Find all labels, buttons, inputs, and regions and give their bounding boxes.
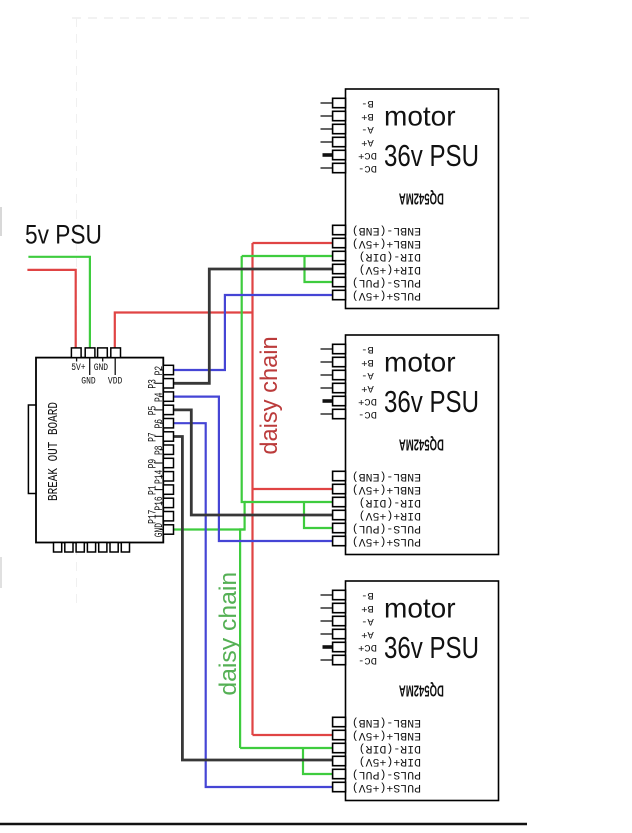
svg-text:ENBL+(+5V): ENBL+(+5V) [352, 483, 421, 495]
svg-text:A+: A+ [361, 136, 374, 148]
svg-text:DC-: DC- [358, 408, 377, 420]
svg-text:DC+: DC+ [358, 395, 377, 407]
svg-text:motor: motor [384, 346, 456, 377]
svg-text:5v PSU: 5v PSU [25, 220, 102, 250]
svg-text:PULS-(PUL): PULS-(PUL) [352, 276, 421, 288]
svg-text:DC+: DC+ [358, 641, 377, 653]
svg-text:DQ542MA: DQ542MA [399, 436, 444, 454]
svg-text:36v PSU: 36v PSU [384, 630, 479, 664]
svg-text:P2: P2 [153, 366, 166, 376]
svg-text:A-: A- [361, 615, 374, 627]
svg-text:GND: GND [81, 375, 95, 387]
svg-text:BREAK OUT BOARD: BREAK OUT BOARD [46, 402, 62, 501]
svg-text:PULS-(PUL): PULS-(PUL) [352, 522, 421, 534]
svg-text:motor: motor [384, 592, 456, 623]
svg-text:36v PSU: 36v PSU [384, 384, 479, 418]
svg-text:A+: A+ [361, 382, 374, 394]
svg-text:36v PSU: 36v PSU [384, 138, 479, 172]
svg-text:B+: B+ [361, 356, 374, 368]
svg-text:P7: P7 [146, 432, 159, 442]
svg-text:P16: P16 [153, 496, 166, 510]
svg-text:P14: P14 [153, 470, 166, 484]
svg-text:DIR-(DIR): DIR-(DIR) [359, 496, 421, 508]
svg-text:PULS+(+5V): PULS+(+5V) [352, 535, 421, 547]
svg-text:P17: P17 [146, 510, 159, 524]
svg-text:GND: GND [94, 361, 108, 373]
svg-text:DC+: DC+ [358, 149, 377, 161]
svg-text:P5: P5 [146, 406, 159, 416]
svg-text:DQ542MA: DQ542MA [399, 190, 444, 208]
svg-text:B-: B- [361, 589, 374, 601]
svg-text:P1: P1 [146, 485, 159, 495]
svg-text:B-: B- [361, 97, 374, 109]
svg-text:P3: P3 [146, 379, 159, 389]
svg-text:motor: motor [384, 100, 456, 131]
svg-text:ENBL-(ENB): ENBL-(ENB) [352, 716, 421, 728]
svg-text:DIR-(DIR): DIR-(DIR) [359, 742, 421, 754]
svg-text:5V+: 5V+ [71, 361, 85, 373]
svg-text:daisy chain: daisy chain [256, 336, 283, 454]
svg-text:DIR+(+5V): DIR+(+5V) [359, 755, 421, 767]
svg-text:P6: P6 [153, 419, 166, 429]
svg-text:ENBL-(ENB): ENBL-(ENB) [352, 470, 421, 482]
svg-text:DIR-(DIR): DIR-(DIR) [359, 250, 421, 262]
svg-text:ENBL+(+5V): ENBL+(+5V) [352, 729, 421, 741]
svg-text:B-: B- [361, 343, 374, 355]
svg-text:PULS+(+5V): PULS+(+5V) [352, 289, 421, 301]
svg-text:DIR+(+5V): DIR+(+5V) [359, 509, 421, 521]
svg-text:PULS-(PUL): PULS-(PUL) [352, 768, 421, 780]
svg-text:B+: B+ [361, 110, 374, 122]
svg-text:PULS+(+5V): PULS+(+5V) [352, 781, 421, 793]
svg-text:DQ542MA: DQ542MA [399, 682, 444, 700]
svg-text:VDD: VDD [108, 375, 122, 387]
svg-text:GND: GND [153, 523, 166, 537]
svg-text:A-: A- [361, 369, 374, 381]
svg-text:P4: P4 [153, 392, 166, 402]
svg-text:B+: B+ [361, 602, 374, 614]
svg-text:A+: A+ [361, 628, 374, 640]
svg-text:DC-: DC- [358, 654, 377, 666]
svg-text:P8: P8 [153, 445, 166, 455]
svg-text:DC-: DC- [358, 162, 377, 174]
svg-text:DIR+(+5V): DIR+(+5V) [359, 263, 421, 275]
svg-text:ENBL-(ENB): ENBL-(ENB) [352, 224, 421, 236]
svg-text:ENBL+(+5V): ENBL+(+5V) [352, 237, 421, 249]
svg-text:P9: P9 [146, 459, 159, 469]
svg-text:daisy chain: daisy chain [215, 572, 242, 696]
svg-text:A-: A- [361, 123, 374, 135]
